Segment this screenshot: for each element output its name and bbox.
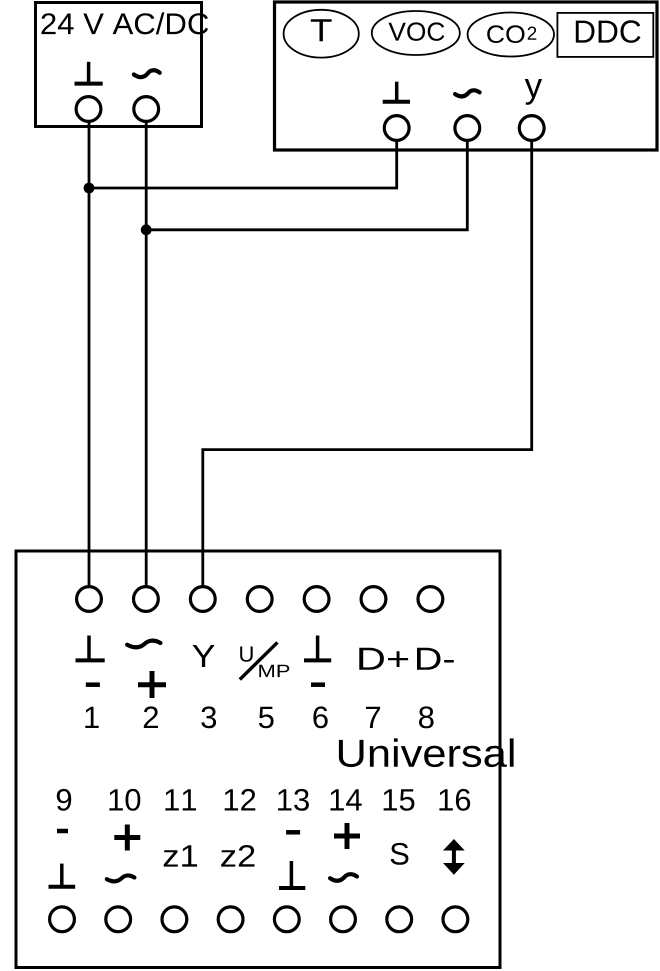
- wire DDC phase to phase net: [146, 140, 467, 229]
- pin number 7: [366, 707, 380, 728]
- terminal circle DDC y: [519, 116, 544, 141]
- ground symbol pin 1: [76, 636, 105, 661]
- label DDC: [576, 20, 641, 43]
- tilde symbol pin 10: [107, 876, 134, 882]
- wire 24V phase down to universal terminal 2: [145, 121, 148, 587]
- pin number 14: [331, 789, 362, 810]
- ground symbol pin 13: [279, 861, 305, 888]
- label Y pin 3: [193, 645, 215, 667]
- terminal circle pin 1: [77, 587, 102, 612]
- label y output: [525, 79, 542, 105]
- pin number 2: [144, 706, 158, 728]
- terminal circle 24V ground: [76, 97, 101, 122]
- minus sign pin 6: [311, 682, 325, 687]
- plus sign pin 14: [334, 823, 360, 849]
- terminal circle pin 10: [106, 907, 131, 932]
- terminal circle pin 16: [443, 907, 468, 932]
- ground symbol in 24V box: [75, 62, 103, 84]
- pin number 16: [439, 789, 470, 811]
- sensor oval VOC: [372, 11, 460, 55]
- terminal circle pin 3: [190, 587, 215, 612]
- pin number 8: [419, 706, 434, 728]
- label z2 pin 12: [221, 845, 254, 867]
- terminal circle pin 6: [304, 587, 329, 612]
- label S pin 15: [391, 843, 409, 865]
- DDC controller box: [275, 2, 658, 150]
- plus sign pin 2: [138, 671, 166, 698]
- universal controller box: [16, 551, 500, 968]
- minus sign pin 9: [57, 829, 68, 834]
- sensor oval CO2: [468, 13, 554, 57]
- sensor oval T: [284, 10, 359, 58]
- wire 24V ground down to universal terminal 1: [88, 121, 91, 587]
- minus sign pin 1: [86, 682, 100, 687]
- pin number 5: [259, 707, 274, 729]
- terminal circle pin 14: [331, 907, 356, 932]
- pin number 3: [201, 706, 216, 728]
- wire DDC ground to ground net: [89, 140, 397, 188]
- terminal circle DDC phase: [455, 116, 480, 141]
- terminal circle 24V phase: [134, 97, 159, 122]
- DDC label rectangle: [557, 13, 653, 57]
- label Universal: [339, 738, 514, 767]
- terminal circle DDC ground: [384, 116, 409, 141]
- label VOC: [389, 22, 445, 41]
- terminal circle pin 8: [418, 587, 443, 612]
- tilde symbol pin 14: [330, 874, 357, 880]
- pin number 6: [313, 706, 327, 728]
- pin number 9: [57, 789, 71, 811]
- label CO of CO2: [487, 25, 524, 43]
- minus sign pin 13: [286, 830, 300, 835]
- ground symbol pin 6: [304, 636, 331, 661]
- plus sign pin 10: [114, 825, 140, 851]
- terminal circle pin 2: [134, 587, 159, 612]
- wire DDC y output to universal terminal 3: [203, 140, 532, 587]
- power supply box 24 V AC/DC: [36, 3, 202, 127]
- label D+ pin 7: [359, 648, 408, 670]
- label T: [311, 19, 332, 41]
- terminal circle pin 7: [361, 587, 386, 612]
- slash of U/MP: [240, 642, 278, 679]
- terminal circle pin 9: [50, 907, 75, 932]
- label 2 of CO2: [528, 27, 537, 40]
- double arrow symbol pin 16: [443, 839, 465, 875]
- ground symbol in DDC box: [383, 82, 410, 102]
- ground symbol pin 9: [49, 864, 76, 887]
- tilde symbol pin 2: [127, 641, 160, 648]
- AC tilde symbol in DDC box: [455, 90, 480, 96]
- AC tilde symbol in 24V box: [134, 70, 160, 77]
- pin number 12: [225, 789, 256, 811]
- pin number 10: [109, 789, 140, 811]
- label U/MP pin 5: [240, 642, 289, 679]
- label z1 pin 11: [164, 845, 197, 866]
- junction dot ground net: [84, 183, 95, 194]
- label 24 V AC/DC: [42, 12, 209, 34]
- terminal circle pin 13: [274, 907, 299, 932]
- pin number 11: [165, 789, 196, 810]
- pin number 1: [85, 707, 98, 728]
- terminal circle pin 15: [387, 907, 412, 932]
- terminal circle pin 11: [162, 907, 187, 932]
- terminal circle pin 5: [247, 587, 272, 612]
- label D- pin 8: [417, 648, 454, 670]
- pin number 13: [278, 789, 309, 811]
- pin number 15: [384, 789, 415, 811]
- junction dot phase net: [141, 224, 152, 235]
- terminal circle pin 12: [218, 907, 243, 932]
